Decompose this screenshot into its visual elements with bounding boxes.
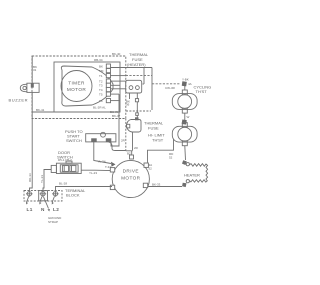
wire hi-limit to heater xyxy=(184,146,187,160)
wire left drop to terminal block xyxy=(30,92,33,191)
connector arrow lower xyxy=(111,167,116,172)
wire DS right to motor xyxy=(81,169,111,171)
svg-text:36: 36 xyxy=(126,103,130,107)
svg-text:YL-33: YL-33 xyxy=(40,175,44,183)
hi-limit thermostat top tab xyxy=(182,123,187,128)
thermal fuse heater TF1 body xyxy=(126,80,142,93)
svg-text:YL-34: YL-34 xyxy=(98,160,106,164)
svg-text:D5-1 D5-2: D5-1 D5-2 xyxy=(58,158,72,162)
hi-limit thermostat body xyxy=(172,126,197,142)
wire timer T1b feed xyxy=(111,75,126,77)
svg-text:STRAP: STRAP xyxy=(48,220,58,224)
svg-text:L1: L1 xyxy=(27,207,33,212)
svg-text:W: W xyxy=(187,115,190,119)
wire TF1 right leg down to thermal fuse xyxy=(136,93,138,119)
motor tab left lower xyxy=(110,185,114,189)
svg-text:TH'ST: TH'ST xyxy=(152,138,164,143)
svg-text:TH'ST: TH'ST xyxy=(196,89,208,94)
terminal L1 xyxy=(27,192,31,196)
heater element xyxy=(189,164,207,182)
motor tab right upper xyxy=(144,163,148,167)
svg-text:BL-2R AL: BL-2R AL xyxy=(93,106,106,110)
svg-text:T6: T6 xyxy=(99,99,103,103)
wire between thermostats xyxy=(184,113,186,120)
wire heater to motor xyxy=(148,186,183,188)
svg-text:52: 52 xyxy=(149,167,153,171)
inline terminal 2 on leg xyxy=(136,113,139,116)
terminal L2 xyxy=(53,192,57,196)
svg-text:BLOCK: BLOCK xyxy=(66,193,80,198)
svg-text:BK-40: BK-40 xyxy=(112,52,121,56)
wire timer T6 stub xyxy=(111,100,121,102)
wire boundary to motor feed xyxy=(126,150,133,152)
thermal fuse TF2 body xyxy=(127,120,142,133)
svg-text:N: N xyxy=(41,207,45,212)
terminal block dashed outline xyxy=(24,191,62,202)
svg-text:RB-34: RB-34 xyxy=(94,58,103,62)
heater terminal upper xyxy=(182,160,187,165)
drive motor M outline xyxy=(112,160,149,197)
buzzer B1 inner circle xyxy=(23,86,26,89)
svg-text:TIMER: TIMER xyxy=(68,81,85,86)
TF2 top tab xyxy=(135,117,139,120)
wire timer T2 stub xyxy=(111,80,127,82)
svg-text:31: 31 xyxy=(33,68,37,72)
svg-text:T4: T4 xyxy=(99,88,103,92)
buzzer B1 contact xyxy=(31,83,34,87)
wire PS left terminal down xyxy=(94,142,111,164)
console boundary (dashed box) xyxy=(32,56,126,119)
door switch DS box xyxy=(56,163,81,173)
svg-text:2R: 2R xyxy=(134,146,139,150)
wire timer T1 to right feed xyxy=(111,67,153,69)
svg-text:4A: 4A xyxy=(188,82,192,86)
svg-text:52: 52 xyxy=(169,156,173,160)
wire hi-limit wing to motor xyxy=(148,140,174,163)
wire PS riser xyxy=(111,94,119,146)
arrow L1 xyxy=(26,197,28,203)
wire top feed right verticals xyxy=(143,68,145,85)
PS knob xyxy=(101,132,106,137)
DS top nub xyxy=(66,161,72,163)
svg-text:BK: BK xyxy=(99,65,103,69)
svg-text:Y-BK: Y-BK xyxy=(182,78,189,82)
wire buzzer riser xyxy=(31,56,33,84)
DS contact 1 xyxy=(62,166,68,172)
svg-text:B2: B2 xyxy=(127,152,131,156)
PS terminal 1 xyxy=(91,138,97,142)
dashed boundary right drop xyxy=(125,119,127,151)
svg-text:BUZZER: BUZZER xyxy=(9,98,29,103)
timer box xyxy=(54,62,120,112)
svg-text:T1: T1 xyxy=(99,74,103,78)
wire timer T4 to fuse xyxy=(111,88,126,90)
inline terminal on leg xyxy=(135,99,138,102)
timer motor TM outline xyxy=(61,66,113,106)
svg-text:BK-41: BK-41 xyxy=(36,108,45,112)
wire ground strap xyxy=(44,197,49,209)
buzzer B1 body xyxy=(27,83,39,92)
timer motor circle xyxy=(61,71,92,102)
svg-text:MOTOR: MOTOR xyxy=(67,87,87,92)
wire TF2 down to motor xyxy=(132,133,134,151)
TF2 left tab xyxy=(127,124,130,128)
label PUSH TO START SWITCH xyxy=(65,129,83,143)
DS contact 2 xyxy=(70,166,76,172)
cycling thermostat disc xyxy=(178,95,192,109)
svg-text:YL-23: YL-23 xyxy=(89,171,97,175)
svg-text:T-34: T-34 xyxy=(105,165,111,169)
svg-text:HEATER: HEATER xyxy=(184,172,200,177)
connector arrow upper xyxy=(111,162,116,167)
TF1 right contact xyxy=(136,86,140,90)
svg-text:MOTOR: MOTOR xyxy=(121,176,141,181)
svg-text:CW-3R: CW-3R xyxy=(165,86,176,90)
push-to-start switch PS box xyxy=(86,134,116,142)
wire TF1 left leg xyxy=(129,93,131,99)
wire DS left to N drop xyxy=(43,170,51,192)
wire dashed to cycling tstat xyxy=(152,83,180,85)
TF1 left contact xyxy=(129,86,133,90)
wire dashed t1b xyxy=(126,75,152,77)
wire timer T5 to PS riser xyxy=(111,93,120,95)
svg-text:L2: L2 xyxy=(53,207,59,212)
hi-limit top connector xyxy=(182,120,187,125)
terminal N xyxy=(41,192,45,196)
label THERMAL FUSE (HEATER) xyxy=(127,52,149,67)
PS terminal 2 xyxy=(106,138,112,142)
motor top wire terminal xyxy=(131,151,133,156)
svg-text:SWITCH: SWITCH xyxy=(66,138,82,143)
wire timer T3 stub xyxy=(111,84,121,86)
wire motor lower to terminal block L2 xyxy=(56,187,113,192)
label DOOR SWITCH xyxy=(57,150,73,160)
svg-text:T5: T5 xyxy=(99,93,103,97)
buzzer B1 cap xyxy=(20,84,27,92)
heater terminal lower xyxy=(186,180,189,183)
dashed boundary mid xyxy=(126,110,151,112)
timer terminal labels xyxy=(99,65,104,104)
hi-limit thermostat disc xyxy=(178,127,192,141)
terminal block N box xyxy=(39,191,48,201)
svg-text:TM: TM xyxy=(99,69,104,73)
svg-text:FUSE: FUSE xyxy=(148,126,159,131)
wire PS loop to motor riser xyxy=(109,142,126,151)
cycling thermostat top tab xyxy=(182,90,187,95)
svg-text:BK-33: BK-33 xyxy=(152,183,161,187)
svg-text:2R: 2R xyxy=(121,139,126,143)
arrow L2 xyxy=(52,197,54,203)
DS left attachment xyxy=(51,165,56,172)
wire BK-41 xyxy=(32,111,120,113)
cycling tstat top connector xyxy=(182,81,187,86)
svg-text:BL-28: BL-28 xyxy=(59,182,67,186)
DS inner frame xyxy=(60,165,78,172)
label TERMINAL BLOCK xyxy=(65,188,86,198)
cycling thermostat body xyxy=(172,94,197,110)
motor tab right lower xyxy=(143,183,147,187)
svg-text:DRIVE: DRIVE xyxy=(123,168,139,173)
motor tab left upper xyxy=(110,168,114,172)
svg-text:RD-33: RD-33 xyxy=(28,173,32,182)
hi-limit bottom tab xyxy=(182,141,187,146)
cycling thermostat bottom tab xyxy=(182,108,187,113)
arrow N xyxy=(40,197,42,203)
svg-text:(HEATER): (HEATER) xyxy=(127,62,146,67)
timer terminals xyxy=(106,64,110,103)
